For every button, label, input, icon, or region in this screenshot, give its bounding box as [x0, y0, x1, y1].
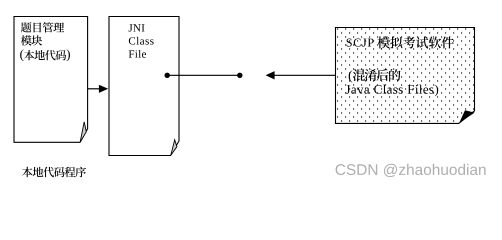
- wire: junction segment with dots: [167, 74, 240, 76]
- node dot right: [237, 73, 242, 78]
- text JNI: [129, 24, 145, 31]
- text 混淆后的: [353, 69, 401, 81]
- left document folded corner: [80, 122, 86, 142]
- text 本地代码: [24, 50, 66, 60]
- text 模块: [21, 35, 42, 45]
- text 题目管理: [21, 22, 64, 32]
- document: JNI Class File: [109, 17, 179, 156]
- right box black folded corner: [459, 110, 474, 123]
- text SCJP: [347, 39, 374, 47]
- wire: left doc to middle doc: [88, 88, 100, 90]
- middle document folded corner: [171, 140, 177, 155]
- text 模拟考试软件: [377, 36, 454, 48]
- watermark CSDN @zhaohuodian: [336, 164, 486, 177]
- text File: [129, 50, 146, 58]
- text close paren of (本地代码): [67, 49, 70, 61]
- arrowhead pointing left: [266, 71, 275, 79]
- arrowhead into middle doc: [99, 85, 108, 93]
- text open paren of (本地代码): [20, 49, 23, 61]
- text Java Class Files): [346, 85, 438, 97]
- text Class: [129, 37, 154, 45]
- label 本地代码程序: [22, 167, 86, 178]
- document: native-code module: [14, 17, 88, 143]
- text open paren of (混淆后的: [349, 70, 352, 82]
- node dot left: [165, 73, 170, 78]
- box: SCJP simulated exam software: [336, 28, 475, 124]
- wire: from SCJP box leftwards: [274, 74, 335, 76]
